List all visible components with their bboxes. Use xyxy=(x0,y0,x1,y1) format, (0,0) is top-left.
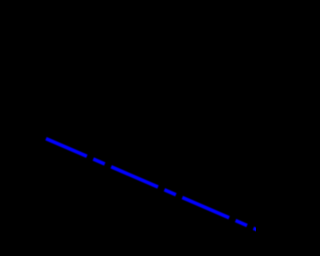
dashed blue line xyxy=(0,0,256,256)
